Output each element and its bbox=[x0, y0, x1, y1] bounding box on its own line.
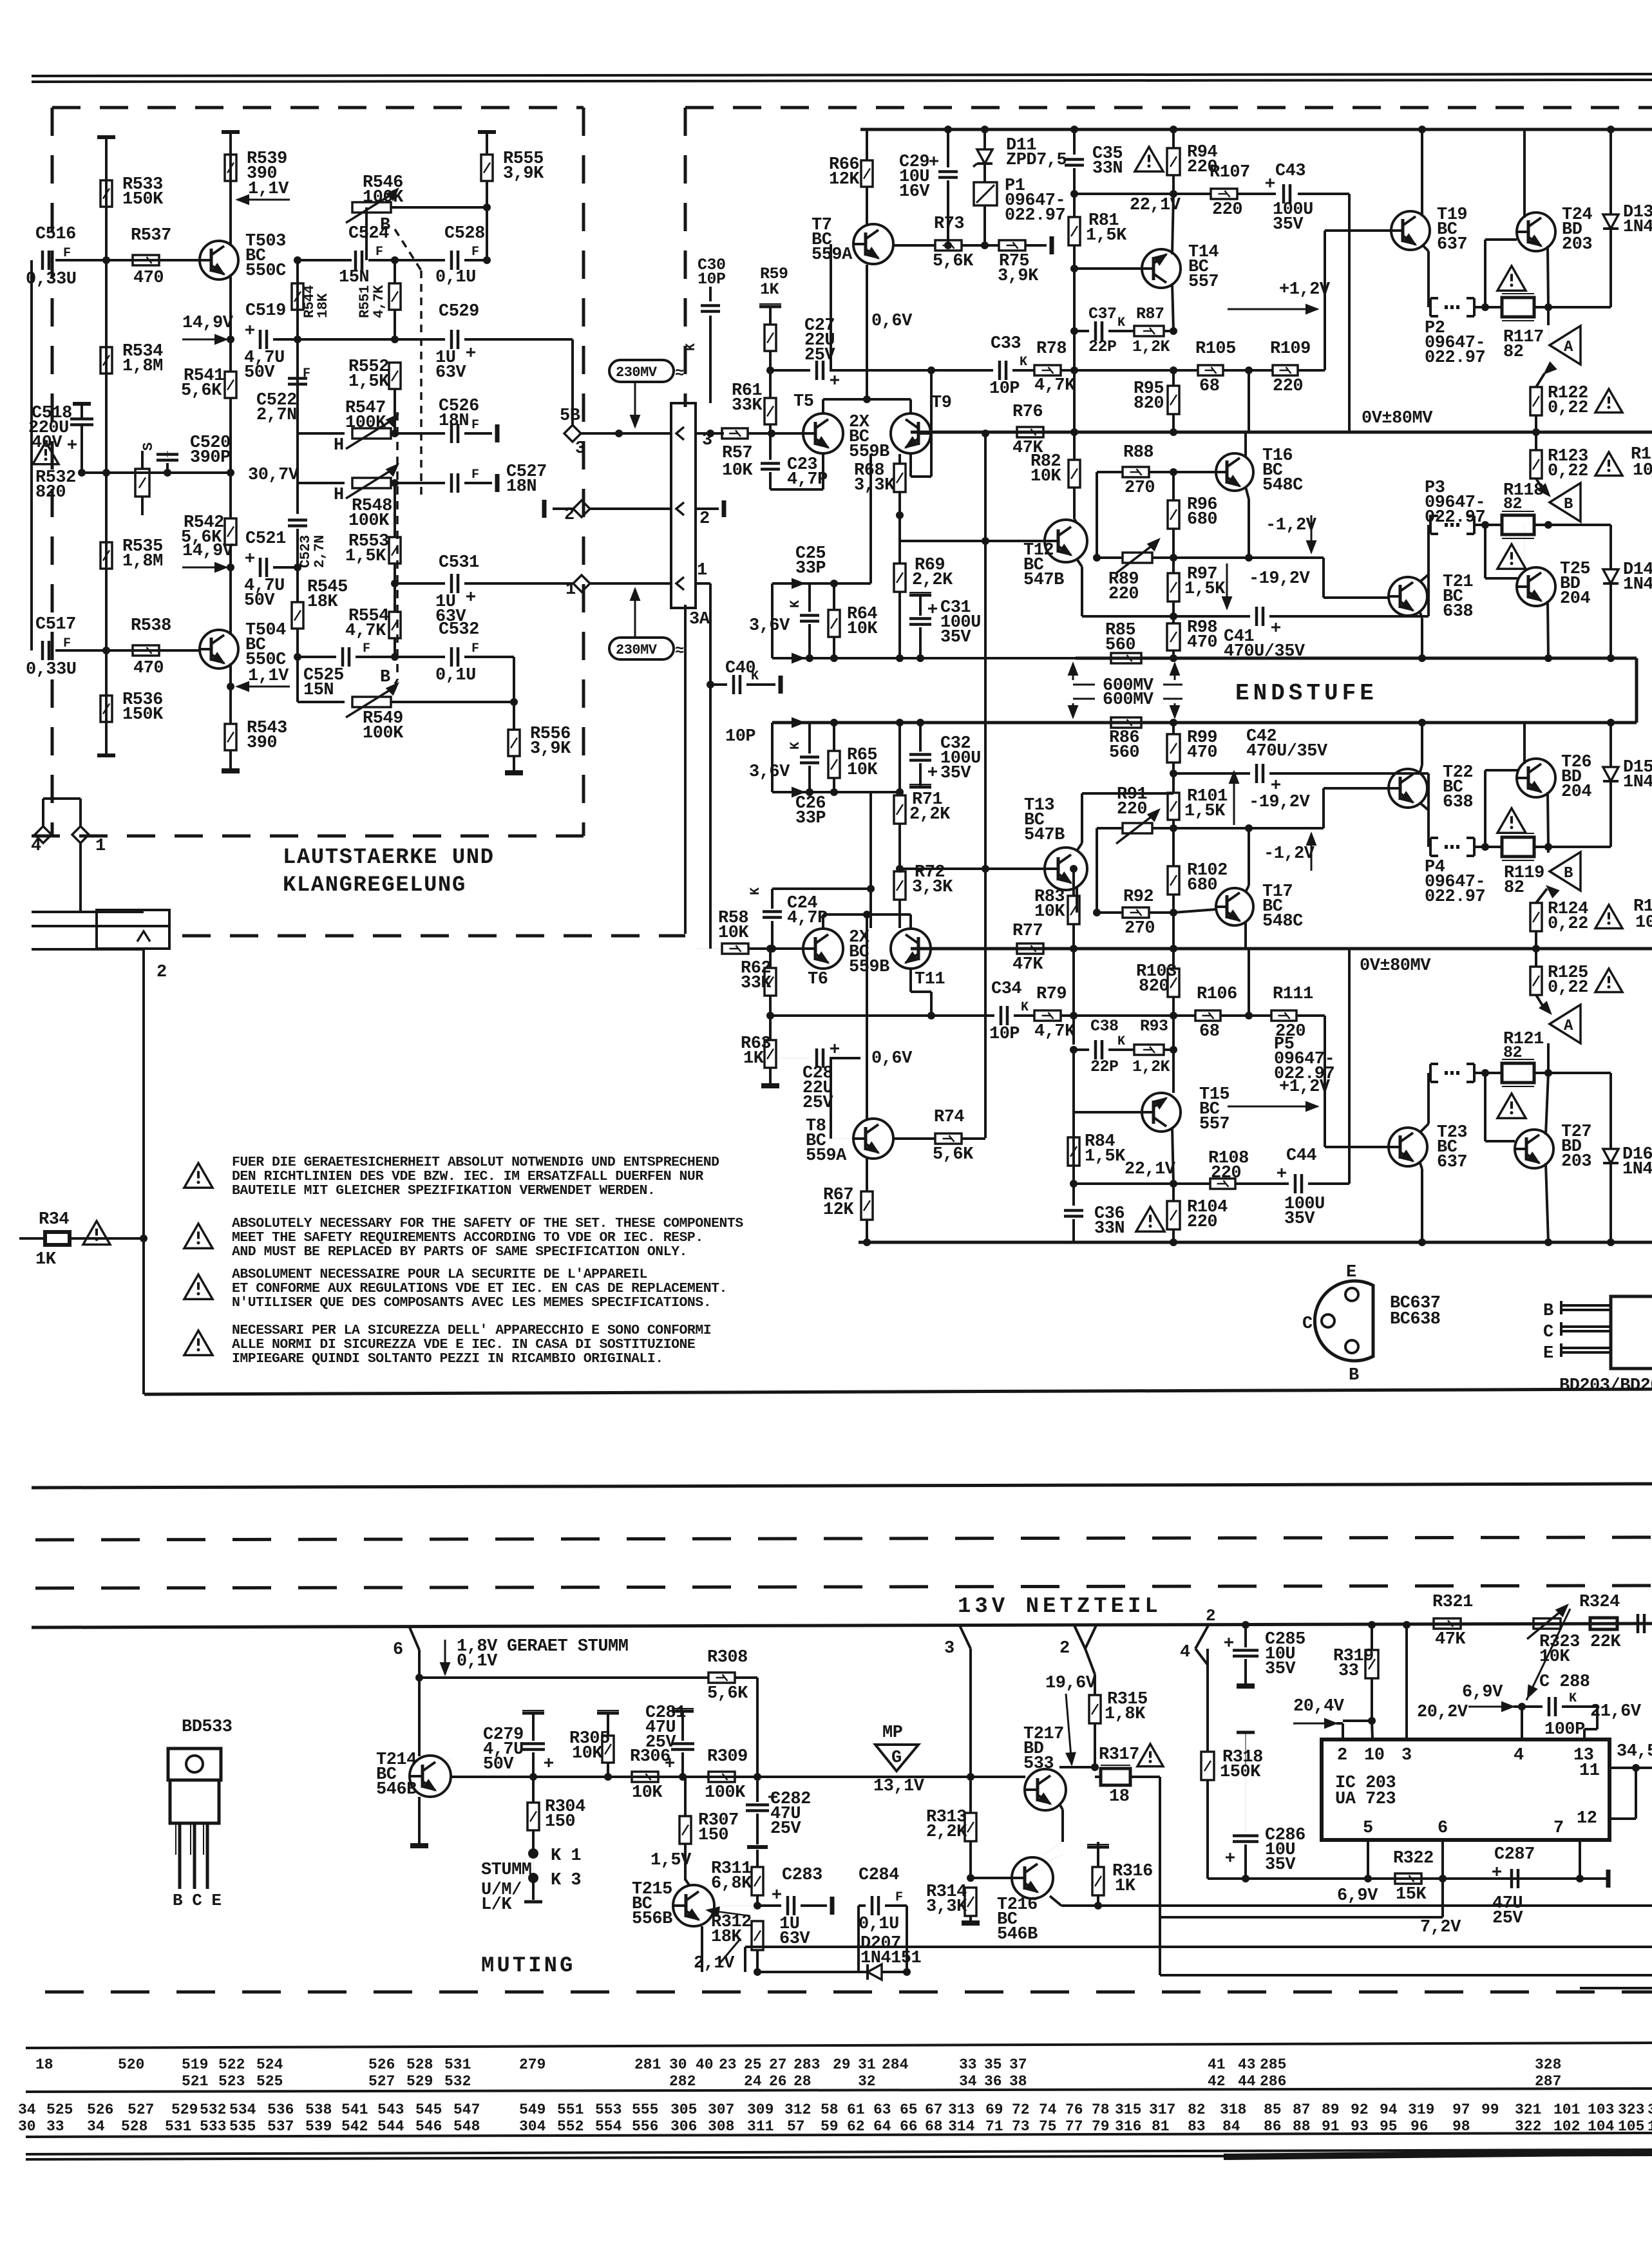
resistor R93 bbox=[1134, 1045, 1164, 1055]
resistor R78 bbox=[1034, 365, 1061, 375]
wire T27 emitter up bbox=[1546, 1073, 1548, 1135]
wire T26 collector bbox=[1523, 723, 1526, 764]
resistor R318 bbox=[1201, 1752, 1214, 1780]
svg-text:0,1U: 0,1U bbox=[435, 268, 476, 287]
triangle MP G bbox=[875, 1745, 918, 1771]
svg-text:R93: R93 bbox=[1140, 1017, 1168, 1036]
wire muting top bbox=[419, 1676, 708, 1679]
svg-text:K: K bbox=[1021, 1000, 1029, 1015]
svg-text:KLANGREGELUNG: KLANGREGELUNG bbox=[283, 873, 466, 898]
svg-text:10K: 10K bbox=[572, 1744, 603, 1763]
transistor T5 bbox=[803, 413, 843, 453]
wire tone lower H pot bbox=[296, 433, 299, 483]
frame line 2 bbox=[32, 1484, 1652, 1488]
resistor R79 bbox=[1034, 1010, 1061, 1021]
svg-text:H: H bbox=[334, 436, 344, 455]
svg-text:33P: 33P bbox=[795, 559, 826, 578]
resistor R545 bbox=[292, 602, 303, 629]
svg-text:22P: 22P bbox=[1090, 1057, 1119, 1076]
svg-text:230MV: 230MV bbox=[616, 642, 658, 658]
svg-text:1K: 1K bbox=[35, 1250, 57, 1269]
capacitor C518 bbox=[70, 417, 93, 421]
svg-text:R77: R77 bbox=[1012, 922, 1043, 941]
svg-text:553: 553 bbox=[595, 2101, 622, 2118]
dashed separator 2 bbox=[35, 1586, 1652, 1588]
svg-text:F: F bbox=[63, 636, 71, 651]
wire node down to rail lower bbox=[1248, 949, 1250, 1016]
input connector box bbox=[671, 403, 696, 608]
transistor T503 bbox=[200, 241, 238, 280]
svg-text:T6: T6 bbox=[808, 970, 828, 989]
capacitor C522 bbox=[296, 339, 299, 372]
svg-text:4: 4 bbox=[31, 837, 41, 856]
pinout BC637 BC638 bbox=[1315, 1281, 1373, 1361]
svg-text:220: 220 bbox=[1108, 585, 1139, 604]
wire emitter to C519 bbox=[227, 336, 234, 343]
trimmer P4 bbox=[1429, 838, 1432, 856]
svg-text:H: H bbox=[334, 486, 344, 505]
resistor R305 bbox=[602, 1736, 614, 1763]
svg-text:ENDSTUFE: ENDSTUFE bbox=[1235, 680, 1378, 706]
svg-text:14,9V: 14,9V bbox=[182, 542, 234, 561]
pinout BD203 BD204 bbox=[1611, 1296, 1652, 1369]
svg-text:99: 99 bbox=[1481, 2101, 1499, 2118]
svg-text:547B: 547B bbox=[1024, 826, 1065, 845]
svg-text:UA 723: UA 723 bbox=[1335, 1790, 1396, 1809]
svg-text:31: 31 bbox=[858, 2056, 876, 2073]
svg-text:546B: 546B bbox=[997, 1925, 1038, 1944]
svg-text:559A: 559A bbox=[806, 1146, 847, 1166]
svg-text:470: 470 bbox=[1187, 743, 1217, 763]
resistor R554 bbox=[389, 612, 401, 638]
svg-text:820: 820 bbox=[1139, 977, 1169, 996]
svg-text:534: 534 bbox=[229, 2101, 256, 2118]
svg-text:≈: ≈ bbox=[675, 643, 684, 660]
svg-text:470: 470 bbox=[133, 659, 164, 678]
svg-text:33: 33 bbox=[46, 2118, 64, 2135]
wire diamond4 diamond1 bottom left bbox=[35, 826, 52, 843]
svg-text:K 3: K 3 bbox=[551, 1871, 581, 1890]
warning triangle C518 bbox=[33, 442, 59, 464]
svg-text:1N40: 1N40 bbox=[1623, 218, 1652, 237]
svg-text:1N40: 1N40 bbox=[1623, 575, 1652, 594]
wire left input column bbox=[30, 260, 33, 650]
svg-text:44: 44 bbox=[1238, 2073, 1256, 2090]
svg-text:546B: 546B bbox=[376, 1780, 417, 1799]
resistor R314 bbox=[965, 1888, 976, 1916]
wire pin3 up bbox=[1405, 1624, 1408, 1739]
svg-text:308: 308 bbox=[708, 2118, 734, 2135]
svg-text:43: 43 bbox=[1238, 2056, 1256, 2073]
svg-text:C34: C34 bbox=[991, 980, 1021, 999]
wire C35 node to R81 bbox=[1074, 193, 1173, 195]
svg-text:47K: 47K bbox=[1012, 955, 1043, 974]
wire R82 column bbox=[1073, 432, 1076, 460]
svg-text:537: 537 bbox=[267, 2118, 294, 2135]
ground top R533 bbox=[97, 135, 115, 139]
transistor T16 bbox=[1216, 453, 1253, 491]
svg-text:34: 34 bbox=[959, 2073, 977, 2090]
terminal C527 bbox=[495, 474, 500, 492]
svg-text:72: 72 bbox=[1012, 2101, 1030, 2118]
svg-text:519: 519 bbox=[182, 2056, 208, 2073]
svg-text:523: 523 bbox=[218, 2073, 245, 2090]
input oval 230MV lower bbox=[609, 638, 674, 659]
svg-text:K: K bbox=[1569, 1691, 1577, 1706]
svg-text:313: 313 bbox=[948, 2101, 974, 2118]
pin 3 bbox=[676, 427, 684, 440]
svg-text:33N: 33N bbox=[1094, 1219, 1125, 1238]
warning triangle C36 bbox=[1136, 1207, 1164, 1231]
IC pin5 wire bbox=[1367, 1840, 1369, 1879]
wire bottom out B bbox=[1160, 1974, 1652, 1976]
svg-text:637: 637 bbox=[1437, 1153, 1467, 1172]
connector 2 netzteil bbox=[1074, 1625, 1085, 1649]
svg-text:BAUTEILE MIT GLEICHER SPEZIFIK: BAUTEILE MIT GLEICHER SPEZIFIKATION VERW… bbox=[232, 1183, 655, 1199]
svg-text:318: 318 bbox=[1220, 2101, 1246, 2118]
svg-text:2: 2 bbox=[1206, 1606, 1215, 1625]
transistor T23 bbox=[1389, 1128, 1427, 1166]
svg-text:3,3K: 3,3K bbox=[854, 476, 895, 495]
wire muting output right bbox=[1098, 1904, 1652, 1907]
svg-text:150: 150 bbox=[545, 1812, 575, 1832]
svg-text:25V: 25V bbox=[804, 346, 835, 365]
svg-text:528: 528 bbox=[121, 2118, 147, 2135]
capacitor C524 bbox=[354, 251, 357, 270]
transistor T216 bbox=[1012, 1857, 1053, 1899]
svg-text:100K: 100K bbox=[345, 413, 386, 433]
resistor R74 bbox=[935, 1133, 962, 1144]
svg-text:0,1U: 0,1U bbox=[435, 666, 476, 685]
svg-text:527: 527 bbox=[368, 2073, 395, 2090]
svg-text:F: F bbox=[375, 245, 383, 260]
resistor R71 bbox=[894, 795, 906, 824]
connector diamond 5B 3 bbox=[564, 425, 581, 442]
svg-text:543: 543 bbox=[377, 2101, 404, 2118]
svg-text:279: 279 bbox=[519, 2056, 546, 2073]
svg-text:150K: 150K bbox=[122, 705, 164, 725]
svg-text:F: F bbox=[471, 641, 479, 656]
svg-text:549: 549 bbox=[519, 2101, 546, 2118]
svg-text:12K: 12K bbox=[829, 170, 860, 189]
dashed gang link vertical bbox=[420, 270, 422, 495]
svg-text:1,2K: 1,2K bbox=[1132, 1057, 1170, 1076]
wire T214 collector rail bbox=[444, 1758, 451, 1762]
svg-text:35: 35 bbox=[984, 2056, 1002, 2073]
resistor R104 bbox=[1167, 1201, 1180, 1229]
svg-text:R105: R105 bbox=[1195, 339, 1236, 359]
resistor R538 bbox=[133, 645, 159, 656]
svg-text:78: 78 bbox=[1092, 2101, 1110, 2118]
svg-text:14,9V: 14,9V bbox=[182, 314, 234, 333]
svg-text:230MV: 230MV bbox=[616, 365, 658, 381]
svg-text:-19,2V: -19,2V bbox=[1249, 793, 1311, 812]
trimmer P5 bbox=[1429, 1064, 1432, 1082]
svg-text:284: 284 bbox=[882, 2056, 909, 2073]
wire R121 row bbox=[1474, 1072, 1502, 1074]
svg-text:547B: 547B bbox=[1023, 571, 1064, 590]
wire R72 to T13 base bbox=[900, 867, 985, 870]
warning triangle R123 bbox=[1595, 452, 1622, 476]
svg-text:470U/35V: 470U/35V bbox=[1224, 642, 1305, 661]
resistor R317 bbox=[1101, 1768, 1130, 1785]
svg-text:1: 1 bbox=[95, 837, 106, 856]
capacitor C24 bbox=[771, 921, 774, 949]
dashed pot link B bbox=[395, 229, 421, 270]
svg-text:ZPD7,5: ZPD7,5 bbox=[1006, 151, 1067, 170]
resistor R532 bbox=[135, 469, 149, 497]
resistor R552 bbox=[389, 363, 401, 389]
svg-text:559A: 559A bbox=[812, 245, 853, 265]
potentiometer R89 bbox=[1123, 553, 1152, 563]
svg-text:C521: C521 bbox=[245, 529, 286, 549]
wire 6 to node bbox=[418, 1650, 421, 1678]
svg-text:K: K bbox=[1020, 355, 1027, 370]
svg-text:AND MUST BE REPLACED BY PARTS: AND MUST BE REPLACED BY PARTS OF SAME SP… bbox=[232, 1244, 687, 1260]
svg-text:K 1: K 1 bbox=[551, 1846, 581, 1866]
resistor R82 bbox=[1068, 460, 1080, 488]
transistor T217 bbox=[1025, 1769, 1066, 1810]
svg-text:319: 319 bbox=[1408, 2101, 1434, 2118]
svg-text:30: 30 bbox=[669, 2056, 687, 2073]
svg-text:36: 36 bbox=[984, 2073, 1002, 2090]
capacitor C42 bbox=[1255, 764, 1258, 783]
svg-text:F: F bbox=[63, 246, 71, 261]
wire T19 collector bbox=[1421, 129, 1423, 216]
svg-text:35V: 35V bbox=[940, 764, 971, 783]
resistor R58 bbox=[722, 943, 748, 954]
svg-text:1,5K: 1,5K bbox=[1184, 802, 1226, 821]
wire pair emitters bbox=[822, 399, 824, 413]
svg-text:538: 538 bbox=[305, 2101, 332, 2118]
svg-text:528: 528 bbox=[406, 2056, 433, 2073]
svg-text:S: S bbox=[140, 442, 157, 451]
svg-text:MEET THE SAFETY REQUIREMENTS A: MEET THE SAFETY REQUIREMENTS ACCORDING T… bbox=[232, 1230, 703, 1246]
svg-text:100P: 100P bbox=[1544, 1720, 1585, 1739]
svg-text:6: 6 bbox=[393, 1640, 403, 1660]
svg-text:11: 11 bbox=[1579, 1761, 1600, 1781]
wire R77 bbox=[1017, 943, 1043, 954]
svg-text:4: 4 bbox=[1180, 1643, 1190, 1662]
pin 2 bbox=[676, 502, 684, 515]
svg-text:-19,2V: -19,2V bbox=[1249, 569, 1311, 589]
svg-text:532: 532 bbox=[444, 2073, 471, 2090]
svg-text:-1,2V: -1,2V bbox=[1266, 516, 1317, 535]
svg-text:6,9V: 6,9V bbox=[1337, 1886, 1378, 1906]
transistor T24 bbox=[1517, 213, 1555, 251]
warning triangle below R121 bbox=[1497, 1094, 1526, 1118]
svg-text:12: 12 bbox=[1577, 1809, 1597, 1828]
svg-text:1K: 1K bbox=[1115, 1877, 1136, 1896]
capacitor C35 bbox=[1073, 129, 1076, 155]
svg-text:2,1V: 2,1V bbox=[694, 1954, 735, 1973]
svg-text:R321: R321 bbox=[1432, 1593, 1473, 1612]
svg-text:10K: 10K bbox=[1030, 467, 1061, 486]
svg-text:10: 10 bbox=[1364, 1746, 1384, 1765]
capacitor C517 bbox=[41, 641, 44, 660]
0V rail upper bbox=[911, 431, 1652, 434]
arrow T215 base bbox=[707, 1910, 750, 1916]
svg-text:82: 82 bbox=[1503, 1043, 1522, 1062]
svg-text:2,2K: 2,2K bbox=[926, 1823, 967, 1842]
supply stub R59 bbox=[759, 305, 781, 308]
resistor R321 bbox=[1434, 1618, 1461, 1629]
svg-text:18N: 18N bbox=[506, 477, 536, 497]
svg-text:324: 324 bbox=[1647, 2101, 1652, 2118]
svg-text:10: 10 bbox=[1635, 913, 1652, 933]
svg-text:100K: 100K bbox=[363, 724, 404, 743]
svg-text:0,22: 0,22 bbox=[1548, 462, 1588, 481]
svg-text:R538: R538 bbox=[131, 616, 171, 636]
svg-text:K: K bbox=[684, 343, 699, 351]
svg-text:K: K bbox=[1117, 1034, 1125, 1049]
svg-text:4,7K: 4,7K bbox=[345, 621, 386, 641]
svg-text:IMPIEGARE QUINDI SOLTANTO PEZZ: IMPIEGARE QUINDI SOLTANTO PEZZI IN RICAM… bbox=[232, 1351, 663, 1367]
svg-text:12K: 12K bbox=[823, 1200, 854, 1220]
svg-text:NECESSARI PER LA SICUREZZA DEL: NECESSARI PER LA SICUREZZA DELL' APPAREC… bbox=[232, 1323, 711, 1338]
transistor T8 bbox=[853, 1119, 893, 1159]
wire T13 emitter bbox=[1077, 843, 1082, 851]
svg-text:C 288: C 288 bbox=[1539, 1673, 1590, 1692]
terminal R75 bbox=[1050, 236, 1054, 254]
svg-text:1N4151: 1N4151 bbox=[860, 1949, 922, 1968]
svg-text:63V: 63V bbox=[435, 363, 466, 383]
svg-text:42: 42 bbox=[1208, 2073, 1226, 2090]
svg-text:560: 560 bbox=[1105, 636, 1135, 655]
svg-text:6,9V: 6,9V bbox=[1462, 1683, 1503, 1702]
bottom frame line of amp section bbox=[144, 1389, 1652, 1394]
svg-text:1,8M: 1,8M bbox=[122, 357, 163, 376]
wire T26 base bbox=[1484, 770, 1486, 847]
svg-text:5,6K: 5,6K bbox=[933, 252, 974, 271]
wire bottom B pot bbox=[298, 701, 345, 703]
svg-text:25: 25 bbox=[744, 2056, 762, 2073]
connector diamond 2 left bbox=[573, 500, 590, 517]
diode D13 bbox=[1609, 129, 1612, 214]
resistor R533 bbox=[100, 180, 112, 207]
svg-text:50V: 50V bbox=[244, 363, 275, 383]
svg-text:022.97: 022.97 bbox=[1005, 206, 1065, 225]
svg-text:F: F bbox=[895, 1890, 903, 1905]
warning triangle paragraph german bbox=[184, 1163, 213, 1188]
svg-text:B: B bbox=[1543, 1302, 1553, 1321]
svg-text:1K: 1K bbox=[760, 280, 779, 299]
svg-text:203: 203 bbox=[1562, 235, 1592, 254]
resistor R306 bbox=[632, 1772, 658, 1782]
svg-text:282: 282 bbox=[669, 2073, 696, 2090]
svg-text:B C E: B C E bbox=[173, 1891, 222, 1910]
capacitor C285 bbox=[1242, 1621, 1249, 1629]
svg-text:0,22: 0,22 bbox=[1548, 978, 1588, 998]
wire T12 emitter bbox=[1077, 559, 1082, 567]
resistor R68 bbox=[894, 464, 906, 492]
wire T12 base bbox=[985, 540, 1045, 542]
capacitor C531 bbox=[450, 574, 453, 593]
svg-text:B: B bbox=[1349, 1366, 1359, 1385]
capacitor C520 bbox=[167, 451, 168, 457]
svg-text:022.97: 022.97 bbox=[1425, 508, 1485, 527]
svg-text:B: B bbox=[1564, 496, 1573, 513]
svg-text:316: 316 bbox=[1115, 2118, 1141, 2135]
lower channel top bus bbox=[772, 721, 1637, 725]
svg-text:T11: T11 bbox=[915, 970, 945, 989]
svg-text:1: 1 bbox=[697, 561, 707, 580]
wire T14 collector bbox=[1172, 283, 1173, 331]
resistor R84 bbox=[1068, 1137, 1079, 1166]
svg-text:N'UTILISER QUE DES COMPOSANTS: N'UTILISER QUE DES COMPOSANTS AVEC LES M… bbox=[232, 1295, 711, 1311]
capacitor C31 bbox=[909, 594, 931, 597]
dashed pot link B2 bbox=[395, 680, 397, 684]
svg-text:304: 304 bbox=[519, 2118, 546, 2135]
svg-text:20,4V: 20,4V bbox=[1293, 1697, 1345, 1716]
wire T23 collector bbox=[1419, 1161, 1422, 1169]
ground bottom R536 bbox=[97, 753, 115, 757]
svg-text:73: 73 bbox=[1012, 2118, 1030, 2135]
svg-text:B: B bbox=[380, 668, 390, 687]
transistor T21 bbox=[1389, 577, 1427, 616]
svg-text:5,6K: 5,6K bbox=[181, 381, 222, 401]
svg-text:10K: 10K bbox=[847, 620, 878, 639]
svg-text:ABSOLUMENT NECESSAIRE POUR LA: ABSOLUMENT NECESSAIRE POUR LA SECURITE D… bbox=[232, 1267, 647, 1282]
warning triangle paragraph italian bbox=[184, 1331, 213, 1355]
svg-text:1,8K: 1,8K bbox=[1105, 1705, 1146, 1724]
svg-text:312: 312 bbox=[784, 2101, 811, 2118]
svg-text:5B: 5B bbox=[560, 406, 580, 426]
ground R63 bbox=[761, 1083, 779, 1088]
wire x1667 base T15 bbox=[1072, 1050, 1075, 1112]
resistor R65 bbox=[828, 751, 840, 778]
svg-text:529: 529 bbox=[171, 2101, 198, 2118]
svg-text:7: 7 bbox=[1553, 1819, 1564, 1838]
capacitor C40 bbox=[707, 681, 714, 688]
svg-text:R88: R88 bbox=[1123, 443, 1154, 462]
svg-text:≈: ≈ bbox=[675, 365, 684, 383]
svg-text:61: 61 bbox=[847, 2101, 865, 2118]
speaker triangle B upper bbox=[1539, 484, 1550, 496]
terminal C283 bbox=[830, 1897, 835, 1915]
svg-text:552: 552 bbox=[557, 2118, 584, 2135]
svg-text:67: 67 bbox=[925, 2101, 943, 2118]
wire T8 collector to R74 bbox=[894, 1137, 935, 1140]
node rail T217 bbox=[967, 1773, 974, 1781]
transistor T14 bbox=[1142, 249, 1181, 288]
svg-text:022.97: 022.97 bbox=[1274, 1065, 1334, 1084]
svg-text:550C: 550C bbox=[245, 261, 286, 281]
wire 30,7V rail bbox=[82, 471, 231, 474]
wire R73 row bbox=[894, 244, 935, 247]
IC pin7 wire bbox=[1579, 1840, 1581, 1879]
resistor R103 bbox=[1168, 969, 1179, 997]
svg-text:522: 522 bbox=[218, 2056, 245, 2073]
capacitor C32 bbox=[909, 753, 931, 756]
capacitor C33 bbox=[998, 361, 1002, 380]
svg-text:77: 77 bbox=[1065, 2118, 1083, 2135]
capacitor C34 bbox=[1000, 1006, 1003, 1025]
diode D16 bbox=[1609, 1073, 1612, 1149]
svg-text:6,8K: 6,8K bbox=[711, 1874, 752, 1893]
warning triangle below R118 bbox=[1497, 544, 1526, 569]
resistor R539 bbox=[225, 155, 236, 181]
svg-text:C37: C37 bbox=[1088, 305, 1117, 323]
svg-text:532: 532 bbox=[200, 2101, 226, 2118]
svg-text:10P: 10P bbox=[989, 1025, 1020, 1044]
svg-text:10K: 10K bbox=[718, 924, 749, 943]
svg-text:1K: 1K bbox=[743, 1049, 764, 1068]
svg-text:470U/35V: 470U/35V bbox=[1246, 742, 1328, 761]
transistor T9 bbox=[891, 413, 931, 453]
resistor R98 bbox=[1167, 623, 1180, 650]
wire T216 collector bbox=[1043, 1855, 1063, 1864]
